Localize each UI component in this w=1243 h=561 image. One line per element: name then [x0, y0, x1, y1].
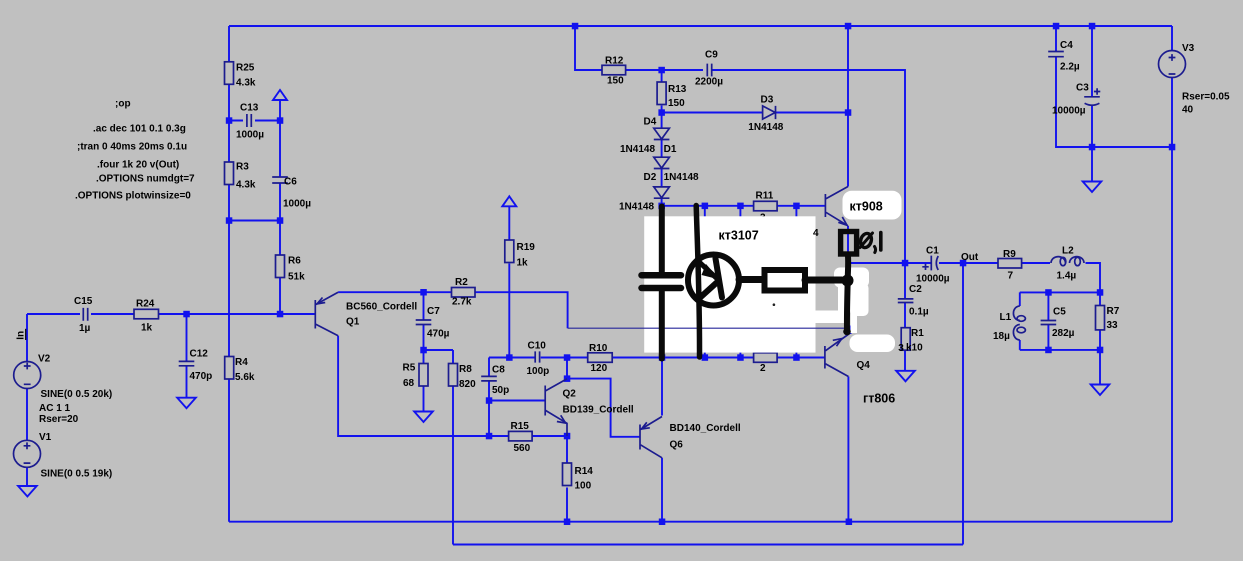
svg-text:1N4148: 1N4148: [619, 201, 654, 212]
wire bias drop from rail: [575, 26, 602, 70]
hand-drawn capacitor bottom plate: [642, 285, 682, 292]
svg-text:Q2: Q2: [563, 389, 577, 400]
power flag above R19: [502, 196, 516, 206]
svg-text:120: 120: [591, 363, 608, 374]
wire R7 branch: [1099, 292, 1101, 350]
hand-drawn value slash: [860, 233, 873, 248]
svg-text:2.2µ: 2.2µ: [1060, 62, 1080, 73]
svg-text:R10: R10: [589, 343, 608, 354]
voltage source V2: [14, 362, 41, 389]
svg-text:R14: R14: [575, 466, 594, 477]
svg-text:R7: R7: [1107, 306, 1120, 317]
svg-text:.OPTIONS plotwinsize=0: .OPTIONS plotwinsize=0: [75, 191, 191, 202]
svg-text:R9: R9: [1003, 249, 1016, 260]
svg-text:Rser=0.05: Rser=0.05: [1182, 92, 1230, 103]
svg-text:C10: C10: [528, 341, 547, 352]
transistor Q3 kt908 NPN: [825, 187, 848, 226]
svg-text:;op: ;op: [115, 99, 131, 110]
svg-text:C12: C12: [190, 349, 209, 360]
wire Q6 collector vertical: [661, 458, 663, 522]
svg-text:2200µ: 2200µ: [695, 77, 723, 88]
inductor L1 curls: [1017, 316, 1025, 322]
wire hidden vertical nets: [705, 206, 797, 358]
hand-drawn value 1: [879, 233, 883, 251]
junction nodes: [183, 23, 1175, 525]
svg-text:150: 150: [607, 76, 624, 87]
resistor R15: [509, 431, 532, 441]
capacitor C13: [247, 114, 251, 127]
wire R12 to C9 node: [626, 69, 703, 71]
hand-drawn emitter resistor square: [841, 232, 857, 255]
inductor L2 curls: [1060, 257, 1066, 265]
capacitor C15: [83, 308, 87, 321]
wire left vertical R25-R3-R4 chain: [228, 26, 230, 522]
hand-drawn line end blob: [843, 328, 851, 336]
svg-text:R19: R19: [517, 242, 536, 253]
wire Q1 emitter row to R2: [338, 292, 567, 328]
inductor L1: [1013, 306, 1019, 340]
hand-drawn transistor kt3107 circle: [688, 255, 739, 306]
svg-text:.OPTIONS numdgt=7: .OPTIONS numdgt=7: [96, 174, 195, 185]
transistor Q4 NPN flipped: [825, 334, 850, 377]
svg-text:C2: C2: [909, 284, 922, 295]
svg-text:D4: D4: [644, 117, 657, 128]
svg-text:R3: R3: [236, 162, 249, 173]
hand-drawn thick line D2 node down: [659, 207, 665, 272]
svg-text:D1: D1: [664, 144, 677, 155]
resistor R11: [754, 201, 778, 211]
resistor R9: [998, 259, 1022, 269]
svg-text:560: 560: [514, 443, 531, 454]
svg-text:1k: 1k: [141, 323, 153, 334]
transistor Q1 BC560 PNP: [315, 292, 338, 336]
svg-text:1000µ: 1000µ: [283, 199, 311, 210]
svg-text:R5: R5: [403, 362, 416, 373]
svg-text:C9: C9: [705, 50, 718, 61]
capacitor C9: [707, 64, 711, 77]
svg-text:4.3k: 4.3k: [236, 180, 256, 191]
svg-text:SINE(0 0.5 19k): SINE(0 0.5 19k): [41, 469, 113, 480]
resistor R14: [563, 463, 572, 486]
svg-text:10000µ: 10000µ: [916, 273, 950, 284]
transistor Q2 BD139 NPN: [545, 379, 567, 436]
white erase patch main: [644, 216, 815, 352]
resistor R8: [449, 364, 458, 387]
wire L1 branch: [1019, 292, 1021, 350]
wire tank bottom row: [1020, 349, 1100, 351]
wire Q2 collector node: [567, 358, 640, 437]
svg-text:Q1: Q1: [346, 317, 360, 328]
resistor R2: [452, 288, 476, 298]
wire Q3 collector vertical: [847, 26, 849, 187]
svg-text:R4: R4: [235, 357, 248, 368]
ground under C12: [177, 398, 196, 409]
svg-text:C13: C13: [240, 103, 259, 114]
svg-text:40: 40: [1182, 105, 1194, 116]
hand-drawn vertical through node: [847, 256, 848, 332]
voltage source V3: [1159, 51, 1186, 78]
wire R19 branch: [508, 206, 510, 357]
svg-text:1N4148: 1N4148: [664, 172, 699, 183]
svg-text:R24: R24: [136, 299, 155, 310]
wire bias row upper: [662, 205, 826, 207]
white erase patch kt908: [843, 191, 902, 220]
capacitor C8: [481, 376, 497, 381]
resistor R4: [225, 357, 234, 380]
svg-text:50p: 50p: [492, 385, 509, 396]
svg-text:Q4: Q4: [857, 360, 871, 371]
ground under tank: [1091, 385, 1110, 396]
wire C9 to output bootstrap: [712, 70, 905, 263]
svg-text:10000µ: 10000µ: [1052, 106, 1086, 117]
wire C8 branch: [488, 358, 490, 437]
wire diode string vertical: [661, 113, 663, 206]
capacitor C3 polarized: [1084, 97, 1100, 105]
resistor R24: [134, 309, 159, 319]
svg-text:R15: R15: [511, 421, 530, 432]
svg-text:k10: k10: [906, 343, 923, 354]
svg-text:кт3107: кт3107: [719, 229, 759, 243]
capacitor C12: [179, 361, 195, 365]
svg-text:L1: L1: [1000, 312, 1012, 323]
svg-text:1000µ: 1000µ: [236, 130, 264, 141]
transistor Q6 BD140 PNP: [640, 417, 662, 458]
svg-text:R13: R13: [668, 84, 687, 95]
svg-text:R2: R2: [455, 277, 468, 288]
power flag above C13 row: [273, 90, 287, 100]
wire bottom ground rail: [229, 521, 1172, 523]
svg-text:R6: R6: [288, 256, 301, 267]
wire row 220: [229, 220, 280, 222]
svg-text:7: 7: [1008, 270, 1014, 281]
hand-drawn thick line below capacitor: [659, 292, 665, 359]
white erase patch right of output upper: [834, 268, 869, 288]
svg-text:4: 4: [813, 228, 819, 239]
wire C4 branch: [1056, 26, 1172, 147]
resistor R25: [225, 62, 234, 85]
svg-text:2.7k: 2.7k: [452, 296, 472, 307]
svg-text:C8: C8: [492, 364, 505, 375]
resistor R12: [602, 65, 626, 75]
hand-drawn kt3107 emitter arrowhead: [702, 264, 720, 280]
svg-text:L2: L2: [1062, 246, 1074, 257]
svg-text:кт908: кт908: [850, 200, 883, 214]
wire Q2 base wire: [489, 400, 545, 402]
svg-text:C3: C3: [1076, 83, 1089, 94]
svg-text:SINE(0 0.5 20k): SINE(0 0.5 20k): [41, 389, 113, 400]
wire tank top row: [1020, 291, 1100, 293]
hand-drawn value comma: [875, 247, 876, 253]
svg-text:Q6: Q6: [670, 439, 684, 450]
svg-text:1N4148: 1N4148: [620, 144, 655, 155]
wire R14 branch: [566, 436, 568, 522]
svg-text:5.6k: 5.6k: [235, 372, 255, 383]
ground under C3: [1083, 182, 1102, 193]
capacitor C7: [416, 320, 432, 325]
svg-text:R12: R12: [605, 56, 624, 67]
capacitor C4: [1048, 52, 1064, 57]
hand-drawn kt3107 emitter stroke: [697, 260, 719, 280]
voltage source V1: [14, 440, 41, 467]
wire C5 branch: [1047, 292, 1049, 350]
wire input row: [27, 313, 315, 315]
capacitor C5: [1041, 321, 1057, 325]
svg-text:1k: 1k: [517, 258, 529, 269]
svg-text:51k: 51k: [288, 272, 305, 283]
capacitor C1 polarized: [931, 256, 938, 271]
hand-drawn value 0 glyph: [859, 232, 873, 249]
svg-text:18µ: 18µ: [993, 331, 1010, 342]
resistor R13: [657, 82, 666, 105]
wire C7 branch: [423, 292, 425, 350]
wire Q3 emitter stub: [847, 226, 849, 263]
svg-text:гт806: гт806: [863, 392, 895, 406]
diode D3: [763, 106, 776, 119]
ground under R5: [414, 412, 433, 423]
wire V3 vertical: [1171, 26, 1173, 522]
wire R13 branch: [661, 70, 663, 113]
wire Q4 collector vertical: [847, 377, 849, 522]
svg-text:470p: 470p: [190, 371, 213, 382]
resistor R5: [419, 364, 428, 387]
diode D1: [654, 157, 670, 168]
capacitor C3 plus: [1094, 88, 1100, 94]
svg-text:R1: R1: [911, 328, 924, 339]
diode D4: [654, 128, 670, 139]
inductor L2: [1051, 257, 1084, 263]
white erase patch left of line: [838, 287, 846, 311]
wire R8 bootstrap vertical: [452, 386, 454, 545]
resistor R3: [225, 162, 234, 185]
hand-drawn kt3107 base bar: [716, 259, 723, 298]
svg-text:C4: C4: [1060, 40, 1073, 51]
svg-text:C5: C5: [1053, 307, 1066, 318]
svg-text:100: 100: [575, 481, 592, 492]
svg-text:3: 3: [898, 343, 904, 354]
wire mid row C10 R10: [489, 357, 825, 359]
wire C2 R1 branch: [904, 263, 906, 371]
svg-text:470µ: 470µ: [427, 329, 450, 340]
resistor bias lower: [754, 353, 778, 363]
capacitor C6: [272, 177, 288, 183]
svg-text:V1: V1: [39, 432, 52, 443]
hand-drawn base lead to resistor: [739, 276, 764, 283]
svg-text:C1: C1: [926, 246, 939, 257]
diode D2: [654, 187, 670, 198]
wire bootstrap rail: [453, 263, 963, 545]
wire thin feedback line over patch: [568, 327, 850, 329]
svg-text:V2: V2: [38, 354, 51, 365]
svg-text:C6: C6: [284, 177, 297, 188]
wire C6 branch: [279, 100, 281, 221]
resistor R1: [901, 328, 910, 351]
wire R5 R8 row: [424, 350, 454, 412]
ground under R1: [896, 371, 915, 382]
white erase patch right of output mid: [850, 283, 869, 316]
svg-text:C7: C7: [427, 306, 440, 317]
hand-drawn resistor box: [765, 270, 806, 291]
svg-text:D3: D3: [761, 94, 774, 105]
hand-drawn node blob: [842, 275, 854, 287]
svg-text:In: In: [16, 331, 27, 340]
wire C12 branch: [186, 314, 188, 398]
svg-text:Out: Out: [961, 252, 979, 263]
svg-text:D2: D2: [644, 172, 657, 183]
hand-drawn thick line second vertical: [696, 206, 699, 358]
svg-text:2: 2: [760, 363, 766, 374]
svg-text:820: 820: [459, 379, 476, 390]
wire tank ground stub: [1099, 350, 1101, 385]
svg-text:1µ: 1µ: [79, 323, 91, 334]
svg-text:.four 1k 20 v(Out): .four 1k 20 v(Out): [97, 160, 179, 171]
wire C13 row: [229, 120, 280, 122]
svg-text:AC 1 1: AC 1 1: [39, 403, 71, 414]
white erase patch above Q4: [850, 335, 896, 353]
wire Q6 emitter vertical: [661, 358, 663, 416]
svg-text:1N4148: 1N4148: [748, 122, 783, 133]
ground under V1: [18, 486, 37, 497]
svg-text:0.1µ: 0.1µ: [909, 306, 929, 317]
wire R15 row: [489, 435, 567, 437]
svg-text:1.4µ: 1.4µ: [1057, 270, 1077, 281]
svg-text:33: 33: [1107, 320, 1119, 331]
svg-text:4.3k: 4.3k: [236, 78, 256, 89]
wire V2 to V1: [26, 314, 28, 486]
hand-drawn capacitor top plate: [642, 272, 682, 279]
svg-text:BC560_Cordell: BC560_Cordell: [346, 302, 417, 313]
svg-text:100p: 100p: [527, 366, 550, 377]
wire output node row: [848, 263, 1100, 292]
white erase patch along line: [851, 310, 858, 333]
white erase patch band below island: [813, 311, 848, 324]
svg-text:;tran 0 40ms 20ms 0.1u: ;tran 0 40ms 20ms 0.1u: [77, 142, 187, 153]
capacitor C2: [898, 299, 914, 303]
svg-text:R11: R11: [756, 190, 774, 201]
capacitor C10: [535, 351, 539, 362]
svg-text:BD139_Cordell: BD139_Cordell: [563, 405, 634, 416]
svg-text:150: 150: [668, 98, 685, 109]
resistor R7: [1096, 306, 1105, 330]
svg-text:C15: C15: [74, 296, 93, 307]
svg-text:V3: V3: [1182, 43, 1195, 54]
hand-drawn kt3107 collector stroke: [699, 281, 720, 300]
resistor R10: [588, 353, 613, 363]
hand-drawn lead box to node: [805, 277, 842, 284]
wire top supply rail: [229, 25, 1172, 27]
svg-text:.ac dec 101 0.1 0.3g: .ac dec 101 0.1 0.3g: [93, 124, 186, 135]
svg-text:Rser=20: Rser=20: [39, 414, 79, 425]
wire D3 row: [662, 112, 848, 114]
svg-text:68: 68: [403, 378, 415, 389]
stray dot: [773, 303, 776, 306]
svg-text:R8: R8: [459, 364, 472, 375]
wire C3 branch: [1091, 26, 1093, 182]
wire Q1 collector route: [338, 336, 489, 436]
resistor R6: [276, 255, 285, 278]
svg-text:282µ: 282µ: [1052, 328, 1075, 339]
capacitor C1 plus: [922, 264, 928, 270]
resistor R19: [505, 240, 514, 263]
svg-text:R25: R25: [236, 63, 255, 74]
wire R6 branch: [279, 221, 281, 315]
net label In rotated: [16, 329, 27, 340]
svg-text:BD140_Cordell: BD140_Cordell: [670, 423, 741, 434]
wire output stub remnant: [850, 326, 852, 335]
